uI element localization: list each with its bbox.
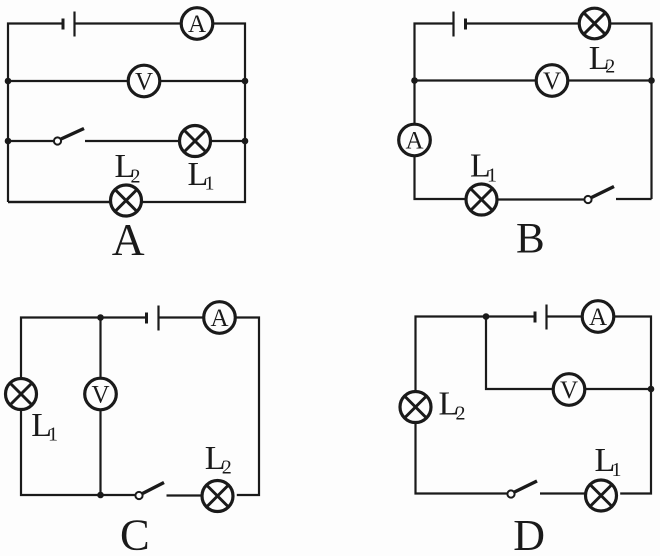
- battery (circuit D): [535, 305, 547, 330]
- wire: [159, 316, 205, 318]
- svg-text:D: D: [513, 511, 545, 556]
- switch S (circuit C): [135, 483, 164, 500]
- svg-text:2: 2: [456, 403, 466, 425]
- wire B top right corner down: [610, 24, 652, 200]
- svg-text:1: 1: [612, 459, 622, 481]
- voltmeter V (circuit C): [85, 378, 117, 410]
- wire: [160, 80, 245, 82]
- wire: [616, 198, 652, 200]
- switch S (circuit B): [584, 187, 614, 204]
- node (A left switch): [5, 138, 12, 145]
- svg-text:V: V: [560, 377, 578, 404]
- wire: [497, 198, 585, 200]
- lamp L2 (circuit C): [202, 481, 233, 512]
- wire B voltmeter row: [415, 79, 537, 81]
- wire C middle branch upper: [99, 318, 101, 379]
- node (C bottom junction): [97, 492, 104, 499]
- svg-text:1: 1: [48, 424, 58, 446]
- wire: [568, 79, 652, 81]
- ammeter A (circuit D): [582, 301, 614, 333]
- svg-text:A: A: [188, 11, 206, 38]
- wire A top-right segment: [75, 22, 182, 24]
- wire: [540, 492, 586, 494]
- wire: [211, 140, 246, 142]
- lamp L1 (circuit A): [180, 126, 211, 157]
- wire B left bottom: [415, 156, 467, 199]
- wire A top-left segment: [8, 24, 63, 203]
- lamp L2 (circuit D): [400, 392, 431, 423]
- svg-text:V: V: [135, 68, 153, 95]
- wire D top-left: [416, 317, 536, 392]
- node (B right V): [648, 77, 655, 84]
- svg-text:A: A: [210, 305, 228, 332]
- node (A right L1): [242, 138, 249, 145]
- svg-text:V: V: [91, 381, 109, 408]
- voltmeter V1: [128, 65, 160, 97]
- wire D top right corner down: [614, 317, 651, 494]
- wire: [85, 140, 180, 142]
- svg-text:2: 2: [605, 56, 615, 78]
- svg-text:V: V: [543, 68, 561, 95]
- svg-text:2: 2: [222, 456, 232, 478]
- svg-text:B: B: [516, 216, 545, 263]
- svg-text:A: A: [589, 304, 607, 331]
- voltmeter V (circuit B): [536, 65, 568, 97]
- node (D right V): [648, 386, 655, 393]
- node (A right V): [242, 78, 249, 85]
- lamp L2 (circuit A): [111, 185, 142, 216]
- switch S (circuit A): [54, 129, 84, 145]
- lamp L1 (circuit D): [586, 480, 617, 511]
- svg-text:C: C: [120, 510, 150, 556]
- wire C top-left: [21, 318, 147, 379]
- ammeter A1: [181, 8, 213, 40]
- battery (circuit C): [147, 306, 159, 331]
- wire A top right to corner: [8, 24, 245, 203]
- node (C top junction): [97, 314, 104, 321]
- node (A left V): [5, 78, 12, 85]
- node (B left V): [411, 77, 418, 84]
- svg-text:A: A: [112, 214, 145, 265]
- svg-text:1: 1: [487, 164, 497, 186]
- wire A voltmeter row: [8, 80, 128, 82]
- wire C middle branch lower: [99, 410, 101, 495]
- ammeter A (circuit C): [204, 302, 236, 334]
- wire B top middle: [466, 22, 580, 24]
- lamp L2 (circuit B): [579, 8, 610, 39]
- svg-text:1: 1: [205, 173, 215, 195]
- wire C left lower: [21, 410, 136, 496]
- wire: [585, 388, 651, 390]
- wire bottom left: [8, 201, 111, 203]
- wire: [547, 315, 583, 317]
- lamp L1 (circuit B): [466, 184, 497, 215]
- node (D top junction): [483, 313, 490, 320]
- wire D inner branch: [486, 317, 553, 390]
- voltmeter V (circuit D): [553, 374, 585, 406]
- wire B top-left: [415, 24, 454, 125]
- svg-text:2: 2: [131, 165, 141, 187]
- svg-text:A: A: [405, 127, 423, 154]
- switch S (circuit D): [507, 481, 537, 498]
- wire D left lower: [416, 423, 508, 494]
- ammeter A (circuit B): [399, 124, 431, 156]
- wire: [167, 494, 203, 496]
- wire A switch row left: [8, 140, 54, 142]
- wire C top right corner down: [235, 318, 259, 496]
- battery (circuit B): [454, 12, 466, 37]
- lamp L1 (circuit C): [6, 379, 37, 410]
- battery (circuit A): [63, 12, 75, 37]
